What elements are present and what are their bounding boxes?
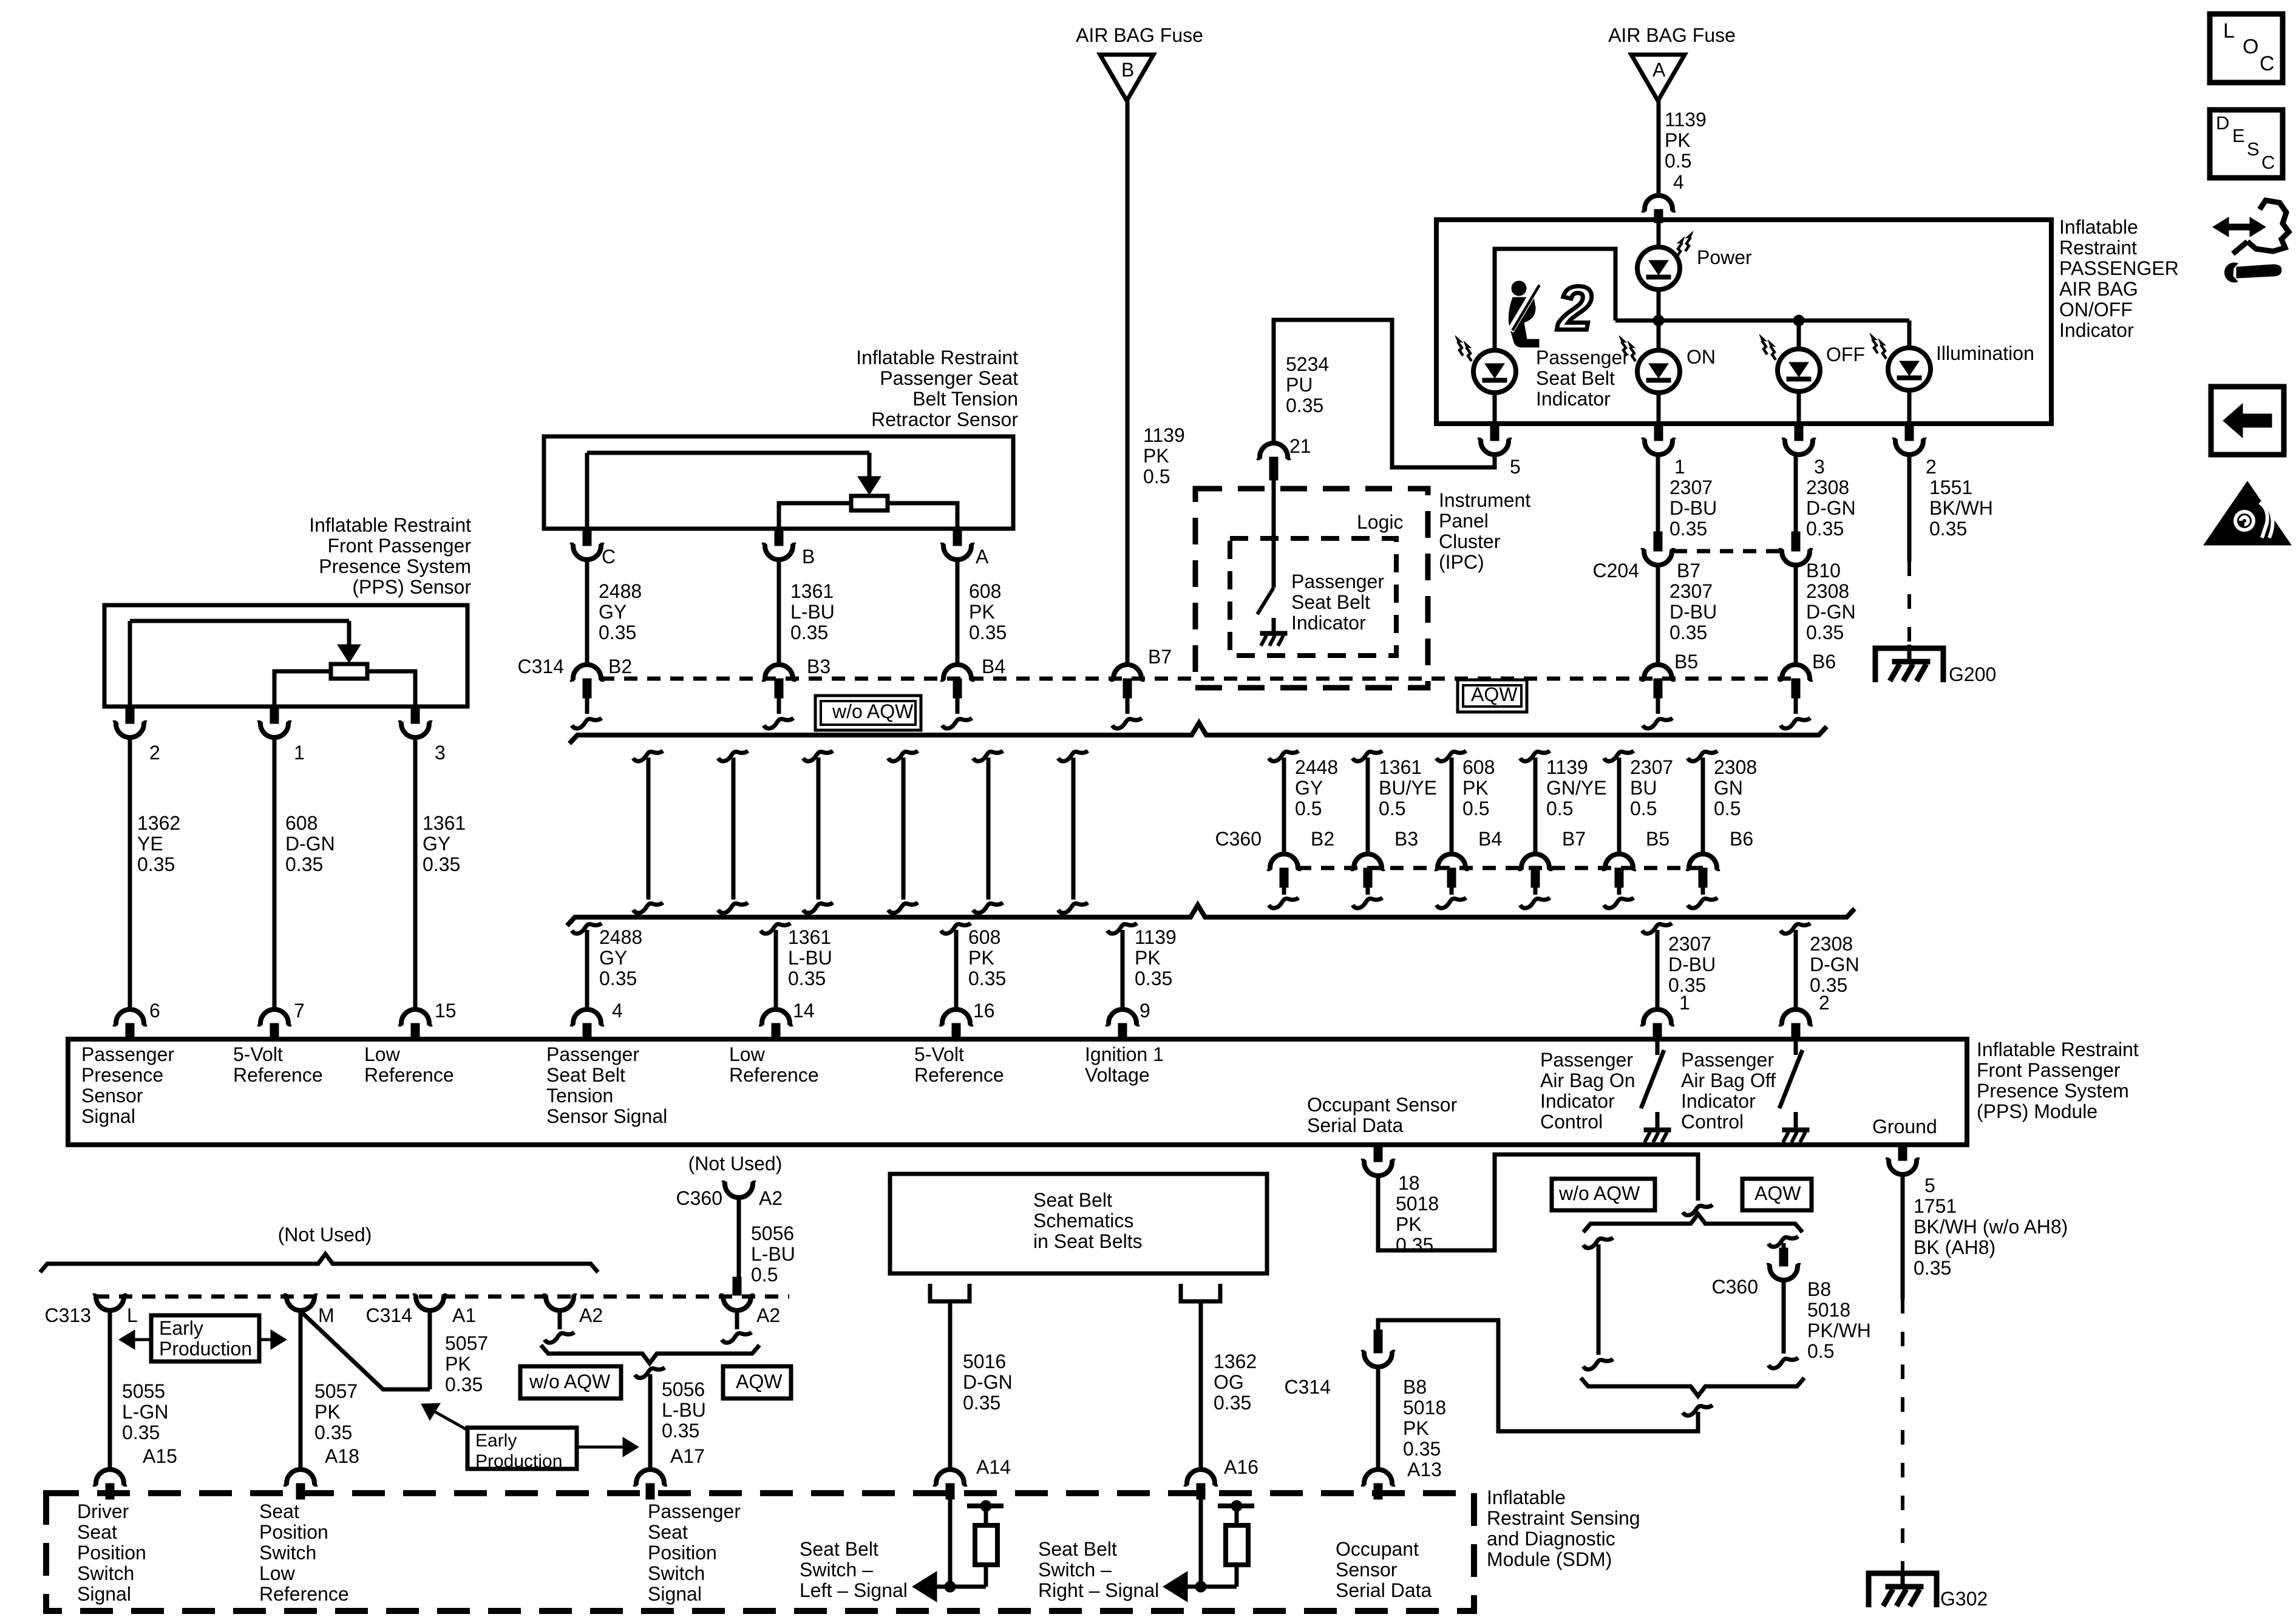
- svg-text:Occupant: Occupant: [1336, 1538, 1419, 1560]
- svg-text:0.35: 0.35: [423, 853, 460, 875]
- svg-text:Inflatable: Inflatable: [1487, 1486, 1566, 1508]
- svg-text:0.35: 0.35: [1135, 968, 1172, 989]
- svg-text:Switch: Switch: [648, 1562, 705, 1584]
- svg-text:GY: GY: [599, 601, 627, 623]
- svg-text:608: 608: [1462, 756, 1495, 778]
- svg-text:C204: C204: [1593, 560, 1640, 581]
- svg-text:L-BU: L-BU: [790, 601, 835, 623]
- svg-text:Front Passenger: Front Passenger: [327, 535, 471, 557]
- svg-text:PK: PK: [1135, 947, 1161, 969]
- svg-text:Left – Signal: Left – Signal: [800, 1579, 908, 1601]
- svg-text:A2: A2: [759, 1187, 783, 1209]
- svg-text:C314: C314: [518, 656, 565, 677]
- svg-text:2308: 2308: [1806, 580, 1849, 602]
- svg-text:B10: B10: [1806, 560, 1841, 581]
- svg-text:B: B: [802, 546, 815, 568]
- svg-text:Restraint Sensing: Restraint Sensing: [1487, 1507, 1640, 1529]
- svg-text:D-GN: D-GN: [285, 833, 335, 855]
- svg-text:C314: C314: [366, 1304, 413, 1326]
- svg-text:Serial Data: Serial Data: [1336, 1579, 1432, 1601]
- svg-text:Seat: Seat: [259, 1500, 299, 1522]
- svg-text:A: A: [1652, 59, 1666, 81]
- svg-text:ON: ON: [1686, 346, 1716, 368]
- svg-text:Presence: Presence: [81, 1064, 163, 1086]
- svg-text:L-GN: L-GN: [122, 1401, 168, 1423]
- svg-text:GY: GY: [423, 833, 450, 855]
- svg-text:Inflatable Restraint: Inflatable Restraint: [856, 347, 1018, 368]
- svg-text:B2: B2: [1311, 828, 1334, 850]
- svg-text:Production: Production: [159, 1338, 252, 1360]
- svg-text:O: O: [2243, 35, 2258, 58]
- svg-text:C314: C314: [1285, 1376, 1331, 1398]
- svg-text:6: 6: [149, 1000, 160, 1022]
- svg-text:Passenger: Passenger: [1536, 347, 1629, 368]
- svg-text:3: 3: [435, 742, 446, 764]
- svg-text:Passenger: Passenger: [1540, 1049, 1633, 1071]
- svg-text:0.35: 0.35: [969, 622, 1007, 643]
- svg-text:Tension: Tension: [546, 1085, 613, 1107]
- svg-text:Indicator: Indicator: [1291, 612, 1366, 634]
- svg-text:(IPC): (IPC): [1439, 551, 1484, 573]
- svg-text:5-Volt: 5-Volt: [914, 1043, 964, 1065]
- svg-text:B7: B7: [1148, 646, 1172, 668]
- svg-text:0.35: 0.35: [137, 853, 175, 875]
- svg-text:2488: 2488: [599, 580, 642, 602]
- svg-text:G302: G302: [1940, 1588, 1988, 1610]
- svg-text:L: L: [2223, 19, 2235, 42]
- svg-text:2308: 2308: [1810, 933, 1853, 955]
- svg-text:PK: PK: [968, 947, 994, 969]
- svg-text:0.35: 0.35: [963, 1392, 1000, 1414]
- svg-text:w/o AQW: w/o AQW: [832, 700, 914, 722]
- svg-text:(PPS) Sensor: (PPS) Sensor: [352, 576, 471, 598]
- svg-text:1139: 1139: [1135, 926, 1177, 948]
- svg-text:GN/YE: GN/YE: [1546, 777, 1607, 799]
- svg-text:BK/WH: BK/WH: [1929, 497, 1993, 519]
- svg-text:0.5: 0.5: [1665, 150, 1691, 172]
- svg-text:AIR BAG: AIR BAG: [2059, 278, 2138, 300]
- svg-text:0.35: 0.35: [662, 1420, 699, 1442]
- svg-text:0.35: 0.35: [1669, 622, 1707, 643]
- svg-text:PU: PU: [1286, 374, 1313, 396]
- svg-text:Panel: Panel: [1439, 510, 1489, 532]
- svg-text:2: 2: [1557, 274, 1592, 343]
- svg-text:Inflatable Restraint: Inflatable Restraint: [1977, 1039, 2139, 1060]
- svg-text:Passenger: Passenger: [546, 1043, 639, 1065]
- svg-text:3: 3: [1814, 456, 1825, 478]
- svg-text:2308: 2308: [1806, 476, 1849, 498]
- svg-text:608: 608: [285, 812, 318, 834]
- svg-text:ON/OFF: ON/OFF: [2059, 299, 2133, 320]
- svg-text:PK: PK: [1143, 445, 1169, 467]
- svg-text:D-GN: D-GN: [963, 1371, 1013, 1393]
- svg-text:and Diagnostic: and Diagnostic: [1487, 1528, 1615, 1550]
- svg-text:A1: A1: [452, 1304, 476, 1326]
- svg-text:0.5: 0.5: [1143, 466, 1170, 487]
- svg-text:w/o AQW: w/o AQW: [529, 1371, 611, 1392]
- svg-text:(PPS) Module: (PPS) Module: [1977, 1100, 2097, 1122]
- svg-text:A: A: [976, 546, 989, 568]
- svg-text:5018: 5018: [1396, 1193, 1439, 1215]
- svg-text:Signal: Signal: [77, 1583, 131, 1605]
- svg-text:B4: B4: [982, 656, 1005, 677]
- svg-text:0.35: 0.35: [1669, 518, 1707, 540]
- svg-text:0.35: 0.35: [1396, 1234, 1433, 1256]
- svg-text:0.5: 0.5: [1714, 798, 1741, 819]
- svg-text:5-Volt: 5-Volt: [233, 1043, 283, 1065]
- svg-text:B5: B5: [1646, 828, 1669, 850]
- svg-text:1361: 1361: [790, 580, 834, 602]
- svg-text:AIR BAG Fuse: AIR BAG Fuse: [1608, 24, 1736, 46]
- svg-text:Reference: Reference: [729, 1064, 819, 1086]
- svg-text:Indicator: Indicator: [1681, 1090, 1756, 1112]
- svg-text:608: 608: [968, 926, 1000, 948]
- svg-text:BU: BU: [1630, 777, 1657, 799]
- svg-text:PK/WH: PK/WH: [1807, 1320, 1871, 1341]
- svg-text:2307: 2307: [1669, 580, 1713, 602]
- svg-text:1: 1: [294, 742, 305, 764]
- svg-text:OFF: OFF: [1826, 344, 1865, 365]
- svg-text:A2: A2: [579, 1304, 603, 1326]
- svg-text:0.35: 0.35: [1214, 1392, 1251, 1414]
- svg-text:Seat Belt: Seat Belt: [1536, 367, 1615, 389]
- svg-text:1: 1: [1674, 456, 1685, 478]
- svg-text:PK: PK: [1462, 777, 1489, 799]
- svg-text:Indicator: Indicator: [1536, 388, 1611, 410]
- svg-text:Retractor Sensor: Retractor Sensor: [871, 408, 1018, 430]
- svg-text:0.35: 0.35: [790, 622, 828, 643]
- svg-text:2307: 2307: [1630, 756, 1673, 778]
- svg-text:0.35: 0.35: [788, 968, 826, 989]
- svg-text:B6: B6: [1730, 828, 1753, 850]
- svg-text:GY: GY: [1295, 777, 1323, 799]
- svg-text:2: 2: [149, 742, 160, 764]
- svg-text:D: D: [2216, 112, 2229, 134]
- svg-text:0.5: 0.5: [1295, 798, 1322, 819]
- svg-text:C: C: [2261, 152, 2275, 173]
- svg-text:608: 608: [969, 580, 1001, 602]
- svg-text:Seat: Seat: [648, 1521, 688, 1543]
- svg-text:2308: 2308: [1714, 756, 1757, 778]
- svg-text:C313: C313: [45, 1304, 92, 1326]
- svg-text:Reference: Reference: [914, 1064, 1004, 1086]
- svg-text:PK: PK: [1665, 129, 1691, 151]
- svg-text:0.5: 0.5: [1630, 798, 1657, 819]
- svg-text:Belt Tension: Belt Tension: [912, 388, 1018, 410]
- svg-text:B2: B2: [608, 656, 632, 677]
- svg-text:2: 2: [1819, 992, 1830, 1014]
- svg-text:0.35: 0.35: [968, 968, 1006, 989]
- svg-text:0.35: 0.35: [1806, 622, 1844, 643]
- svg-text:1551: 1551: [1929, 476, 1972, 498]
- svg-text:0.35: 0.35: [599, 968, 637, 989]
- svg-text:Ground: Ground: [1872, 1116, 1937, 1137]
- svg-text:5018: 5018: [1403, 1397, 1446, 1419]
- svg-text:7: 7: [294, 1000, 305, 1022]
- svg-text:C360: C360: [1215, 828, 1262, 850]
- svg-text:AQW: AQW: [736, 1371, 783, 1392]
- svg-text:A15: A15: [143, 1445, 177, 1467]
- svg-text:B8: B8: [1807, 1278, 1831, 1300]
- svg-text:1362: 1362: [137, 812, 180, 834]
- svg-text:A2: A2: [756, 1304, 780, 1326]
- svg-text:Low: Low: [364, 1043, 401, 1065]
- svg-text:BU/YE: BU/YE: [1379, 777, 1437, 799]
- svg-text:0.35: 0.35: [122, 1422, 160, 1443]
- svg-text:Air Bag On: Air Bag On: [1540, 1070, 1635, 1091]
- svg-text:D-BU: D-BU: [1668, 954, 1716, 975]
- svg-text:1139: 1139: [1546, 756, 1588, 778]
- svg-text:C360: C360: [1712, 1276, 1759, 1298]
- svg-text:Control: Control: [1540, 1111, 1603, 1133]
- svg-text:Switch –: Switch –: [1038, 1559, 1112, 1581]
- svg-text:0.5: 0.5: [1546, 798, 1573, 819]
- svg-text:Sensor: Sensor: [81, 1085, 143, 1107]
- svg-text:Module (SDM): Module (SDM): [1487, 1548, 1612, 1570]
- svg-text:S: S: [2247, 138, 2260, 160]
- svg-text:D-BU: D-BU: [1669, 497, 1717, 519]
- svg-text:Logic: Logic: [1357, 511, 1404, 533]
- svg-text:Switch: Switch: [259, 1542, 316, 1564]
- svg-text:Passenger: Passenger: [648, 1500, 741, 1522]
- svg-text:Control: Control: [1681, 1111, 1744, 1133]
- svg-text:BK/WH (w/o AH8): BK/WH (w/o AH8): [1914, 1216, 2068, 1238]
- svg-text:Low: Low: [259, 1562, 296, 1584]
- svg-text:1751: 1751: [1914, 1195, 1957, 1217]
- svg-text:PK: PK: [314, 1401, 341, 1423]
- svg-text:E: E: [2232, 125, 2245, 146]
- svg-text:2307: 2307: [1668, 933, 1711, 955]
- svg-text:C360: C360: [676, 1187, 723, 1209]
- svg-text:Presence System: Presence System: [1977, 1080, 2129, 1102]
- svg-text:0.35: 0.35: [314, 1422, 352, 1443]
- svg-text:GN: GN: [1714, 777, 1743, 799]
- svg-text:Sensor: Sensor: [1336, 1559, 1398, 1581]
- svg-text:Sensor Signal: Sensor Signal: [546, 1105, 667, 1127]
- svg-text:L-BU: L-BU: [788, 947, 832, 969]
- svg-text:Ignition 1: Ignition 1: [1085, 1043, 1164, 1065]
- svg-text:BK (AH8): BK (AH8): [1914, 1236, 1995, 1258]
- svg-text:0.5: 0.5: [1807, 1340, 1834, 1362]
- svg-text:21: 21: [1289, 435, 1311, 457]
- svg-text:Inflatable Restraint: Inflatable Restraint: [309, 514, 471, 536]
- svg-text:Indicator: Indicator: [2059, 319, 2134, 341]
- svg-text:Reference: Reference: [259, 1583, 349, 1605]
- svg-text:YE: YE: [137, 833, 163, 855]
- svg-text:2: 2: [1926, 456, 1937, 478]
- svg-text:C: C: [2260, 52, 2275, 75]
- svg-text:2448: 2448: [1295, 756, 1338, 778]
- svg-text:0.35: 0.35: [599, 622, 636, 643]
- svg-text:OG: OG: [1214, 1371, 1244, 1393]
- svg-text:Passenger: Passenger: [81, 1043, 174, 1065]
- svg-text:Illumination: Illumination: [1936, 342, 2034, 364]
- svg-text:0.35: 0.35: [445, 1374, 483, 1395]
- svg-text:AQW: AQW: [1754, 1182, 1801, 1204]
- svg-text:9: 9: [1140, 1000, 1150, 1022]
- svg-text:Switch: Switch: [77, 1562, 134, 1584]
- svg-text:L-BU: L-BU: [751, 1243, 795, 1265]
- svg-text:Schematics: Schematics: [1033, 1210, 1133, 1232]
- svg-text:Cluster: Cluster: [1439, 531, 1501, 552]
- svg-text:AIR BAG Fuse: AIR BAG Fuse: [1076, 24, 1203, 46]
- svg-text:1139: 1139: [1143, 424, 1185, 446]
- svg-text:5018: 5018: [1807, 1299, 1850, 1321]
- svg-text:Seat Belt: Seat Belt: [800, 1538, 878, 1560]
- svg-text:0.35: 0.35: [1286, 395, 1323, 416]
- svg-text:Production: Production: [475, 1451, 562, 1471]
- svg-text:Early: Early: [159, 1317, 203, 1339]
- svg-text:B5: B5: [1674, 651, 1698, 673]
- svg-text:Inflatable: Inflatable: [2059, 216, 2138, 238]
- svg-text:5: 5: [1510, 456, 1521, 478]
- svg-text:0.35: 0.35: [1929, 518, 1967, 540]
- svg-text:0.35: 0.35: [1914, 1257, 1951, 1279]
- svg-text:16: 16: [973, 1000, 995, 1022]
- svg-text:Restraint: Restraint: [2059, 237, 2137, 259]
- svg-text:in Seat Belts: in Seat Belts: [1033, 1230, 1143, 1252]
- svg-text:0.35: 0.35: [1403, 1438, 1441, 1460]
- svg-text:L: L: [127, 1304, 138, 1326]
- svg-text:Position: Position: [259, 1521, 328, 1543]
- svg-text:Voltage: Voltage: [1085, 1064, 1150, 1086]
- svg-text:4: 4: [612, 1000, 623, 1022]
- svg-text:1362: 1362: [1214, 1351, 1257, 1372]
- svg-text:Signal: Signal: [81, 1105, 135, 1127]
- svg-text:Seat Belt: Seat Belt: [1033, 1189, 1112, 1211]
- svg-text:Low: Low: [729, 1043, 766, 1065]
- svg-text:Passenger: Passenger: [1291, 571, 1384, 592]
- svg-text:A18: A18: [325, 1445, 359, 1467]
- svg-text:5056: 5056: [751, 1222, 794, 1244]
- svg-text:1361: 1361: [423, 812, 466, 834]
- svg-text:0.35: 0.35: [285, 853, 323, 875]
- svg-text:Right – Signal: Right – Signal: [1038, 1579, 1159, 1601]
- svg-text:Switch –: Switch –: [800, 1559, 873, 1581]
- svg-text:D-GN: D-GN: [1806, 497, 1856, 519]
- svg-text:Presence System: Presence System: [319, 555, 471, 577]
- svg-text:AQW: AQW: [1471, 683, 1518, 705]
- svg-text:1361: 1361: [788, 926, 831, 948]
- svg-text:Seat Belt: Seat Belt: [546, 1064, 625, 1086]
- svg-text:0.5: 0.5: [1379, 798, 1405, 819]
- svg-text:L-BU: L-BU: [662, 1399, 706, 1421]
- svg-text:5016: 5016: [963, 1351, 1006, 1372]
- svg-text:(Not Used): (Not Used): [688, 1153, 783, 1175]
- svg-text:B3: B3: [1394, 828, 1418, 850]
- svg-text:Seat Belt: Seat Belt: [1038, 1538, 1117, 1560]
- svg-text:5055: 5055: [122, 1380, 165, 1402]
- svg-text:Signal: Signal: [648, 1583, 702, 1605]
- svg-text:Position: Position: [77, 1542, 146, 1564]
- svg-text:Instrument: Instrument: [1439, 489, 1530, 511]
- svg-text:1361: 1361: [1379, 756, 1422, 778]
- svg-text:Indicator: Indicator: [1540, 1090, 1615, 1112]
- svg-text:2307: 2307: [1669, 476, 1713, 498]
- svg-text:4: 4: [1673, 171, 1684, 193]
- svg-text:A13: A13: [1407, 1459, 1442, 1480]
- svg-text:D-GN: D-GN: [1806, 601, 1856, 623]
- svg-text:Seat: Seat: [77, 1521, 117, 1543]
- svg-text:A14: A14: [976, 1456, 1011, 1478]
- svg-text:PK: PK: [1403, 1417, 1429, 1439]
- svg-text:14: 14: [793, 1000, 815, 1022]
- svg-text:A16: A16: [1224, 1456, 1258, 1478]
- svg-text:Front Passenger: Front Passenger: [1977, 1059, 2121, 1081]
- svg-text:Passenger: Passenger: [1681, 1049, 1774, 1071]
- svg-text:PK: PK: [1396, 1213, 1422, 1235]
- svg-text:M: M: [318, 1304, 335, 1326]
- svg-text:5057: 5057: [314, 1380, 358, 1402]
- svg-text:18: 18: [1398, 1172, 1420, 1194]
- svg-text:5056: 5056: [662, 1378, 705, 1400]
- svg-text:1: 1: [1679, 992, 1690, 1014]
- svg-text:B3: B3: [807, 656, 830, 677]
- svg-text:5: 5: [1924, 1175, 1935, 1196]
- svg-text:0.35: 0.35: [1806, 518, 1844, 540]
- svg-text:5234: 5234: [1286, 353, 1329, 375]
- svg-text:5057: 5057: [445, 1332, 488, 1354]
- svg-text:Serial Data: Serial Data: [1307, 1114, 1404, 1136]
- svg-text:0.5: 0.5: [751, 1264, 778, 1286]
- svg-text:(Not Used): (Not Used): [278, 1224, 372, 1246]
- svg-text:D-BU: D-BU: [1669, 601, 1717, 623]
- svg-text:PASSENGER: PASSENGER: [2059, 257, 2179, 279]
- svg-text:1139: 1139: [1665, 109, 1707, 131]
- svg-text:w/o AQW: w/o AQW: [1558, 1182, 1640, 1204]
- svg-text:Position: Position: [648, 1542, 717, 1564]
- svg-text:PK: PK: [445, 1353, 471, 1375]
- svg-text:B4: B4: [1478, 828, 1502, 850]
- svg-text:Occupant Sensor: Occupant Sensor: [1307, 1094, 1458, 1116]
- svg-text:Seat Belt: Seat Belt: [1291, 591, 1370, 613]
- svg-text:A17: A17: [670, 1445, 705, 1467]
- svg-text:Early: Early: [475, 1431, 517, 1451]
- svg-text:Passenger Seat: Passenger Seat: [880, 367, 1018, 389]
- svg-text:B6: B6: [1812, 651, 1836, 673]
- svg-text:B7: B7: [1562, 828, 1586, 850]
- svg-text:G200: G200: [1949, 663, 1996, 685]
- svg-text:D-GN: D-GN: [1810, 954, 1860, 975]
- svg-text:GY: GY: [599, 947, 627, 969]
- svg-text:B7: B7: [1677, 560, 1700, 581]
- svg-text:Driver: Driver: [77, 1500, 129, 1522]
- svg-text:0.5: 0.5: [1462, 798, 1489, 819]
- svg-text:PK: PK: [969, 601, 995, 623]
- svg-text:B8: B8: [1403, 1376, 1427, 1398]
- svg-text:15: 15: [435, 1000, 457, 1022]
- svg-text:B: B: [1121, 59, 1134, 81]
- svg-text:Reference: Reference: [233, 1064, 323, 1086]
- svg-text:Air Bag Off: Air Bag Off: [1681, 1070, 1776, 1091]
- svg-text:2488: 2488: [599, 926, 642, 948]
- svg-text:Power: Power: [1697, 246, 1752, 268]
- svg-text:Reference: Reference: [364, 1064, 454, 1086]
- svg-text:C: C: [602, 546, 616, 568]
